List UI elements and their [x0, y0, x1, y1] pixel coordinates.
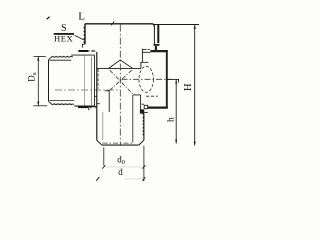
bore box right inner wall — [132, 95, 134, 142]
bore box right top — [133, 94, 141, 96]
d tick right — [143, 177, 146, 181]
right port hidden thread dashes top — [143, 48, 150, 50]
horizontal centerline left port axis — [55, 89, 120, 91]
H top arrow — [194, 25, 196, 29]
left port chamfer top — [49, 56, 53, 60]
left port thread root bottom — [50, 99, 75, 101]
hex collar right face — [94, 55, 96, 106]
dimension line Da vertical — [37, 56, 39, 105]
d tick left — [96, 177, 99, 181]
drill axis diagonal A — [110, 70, 134, 95]
top block top edge — [85, 24, 154, 28]
svg-text:h: h — [166, 117, 176, 122]
svg-text:S: S — [61, 23, 67, 34]
hex facet line — [90, 57, 92, 106]
L dimension tick left — [47, 17, 50, 19]
vertical centerline — [119, 25, 121, 145]
flange dark hatch blob — [140, 109, 144, 113]
d0 dimension line — [104, 166, 144, 168]
body left edge — [96, 52, 98, 140]
stem right wall thread teeth — [143, 113, 144, 136]
body left step tick — [97, 103, 100, 105]
h bottom arrow — [175, 140, 177, 144]
h top arrow — [175, 80, 177, 84]
svg-text:L: L — [78, 10, 85, 22]
Da bottom extension line — [34, 105, 48, 107]
right port top edge thick — [150, 50, 167, 52]
right extension line shared — [143, 146, 145, 181]
hex left edge faint — [84, 55, 86, 106]
dimension line H vertical — [194, 25, 196, 146]
hex collar bottom edge — [74, 105, 94, 107]
stem chamfer left — [97, 140, 102, 145]
top block left edge thread teeth — [84, 27, 85, 44]
svg-text:d: d — [118, 167, 123, 177]
stem hidden bore end dashed — [103, 142, 135, 144]
right port step box — [144, 105, 148, 108]
left port thread crest top base — [52, 56, 71, 58]
svg-text:H: H — [183, 83, 194, 91]
stem chamfer right — [139, 140, 144, 145]
Da top extension line — [34, 55, 46, 57]
left port thread crest top (zigzag) — [52, 56, 73, 57]
left port thread root top — [50, 59, 72, 61]
horizontal centerline right port axis — [122, 78, 172, 80]
hidden bore dash left — [97, 69, 99, 89]
dimension line h vertical — [175, 79, 177, 143]
rib lower dark fill — [155, 46, 157, 51]
top block right rib — [157, 25, 159, 44]
hex bottom bar — [78, 106, 96, 108]
washer bar dashes right — [88, 50, 95, 52]
L dimension tick right — [111, 22, 114, 26]
left port chamfer bottom — [49, 101, 53, 104]
leader line from HEX to block edge — [75, 35, 85, 40]
d0 tick right — [143, 165, 146, 168]
washer bar left — [78, 50, 88, 52]
hidden socket ellipse dashed — [139, 66, 153, 92]
Da arrow bottom — [37, 102, 39, 106]
svg-text:d0: d0 — [117, 154, 125, 166]
svg-text:HEX: HEX — [54, 34, 73, 44]
bore corner left — [105, 91, 109, 112]
top block right edge — [153, 27, 155, 44]
right port left wall — [141, 49, 143, 63]
body left small nub — [95, 95, 97, 97]
left port thread crest bottom base — [52, 103, 74, 105]
bore box right outer wall — [140, 95, 142, 110]
fraction bar under S — [54, 33, 74, 35]
right port right edge — [166, 50, 168, 108]
right port top edge thin part — [142, 51, 150, 53]
rib bottom cap — [154, 44, 160, 46]
d dimension line — [125, 178, 144, 180]
hex bar white notch 1 — [88, 107, 90, 108]
d0 left extension line — [103, 147, 105, 165]
left flange lip — [89, 107, 97, 111]
seat step up right — [141, 62, 149, 68]
top block left lower step — [82, 44, 85, 47]
hex bar white notch 2 — [91, 107, 95, 108]
left port thread crest bottom (zigzag) — [52, 104, 73, 105]
svg-text:Da: Da — [27, 72, 39, 82]
drill axis diagonal B — [109, 70, 131, 91]
stem right wall — [143, 114, 145, 141]
H bottom arrow — [194, 142, 196, 146]
left port face — [48, 60, 50, 102]
top block left threaded edge — [84, 24, 86, 44]
seat cone apex — [109, 60, 133, 68]
flange step line — [144, 111, 148, 113]
stem bottom edge — [102, 144, 139, 146]
H extension line top — [153, 24, 199, 26]
h extension tick — [178, 79, 180, 83]
hidden socket bottom line dashed — [146, 95, 157, 97]
d0 tick left — [102, 165, 105, 168]
right port bottom edge thick — [148, 106, 168, 108]
stem inner faint left — [102, 112, 104, 140]
Da arrow top — [37, 56, 39, 60]
seat shoulder line — [96, 67, 141, 69]
h top extension line — [167, 78, 179, 80]
hex collar top edge — [71, 54, 94, 56]
right port hidden dash lower — [142, 103, 145, 105]
